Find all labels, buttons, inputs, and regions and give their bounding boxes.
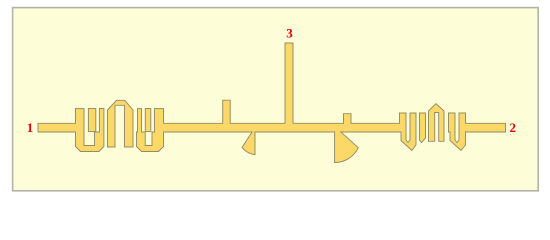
svg-text:2: 2	[510, 120, 517, 135]
svg-text:3: 3	[286, 26, 293, 41]
svg-text:1: 1	[27, 120, 34, 135]
